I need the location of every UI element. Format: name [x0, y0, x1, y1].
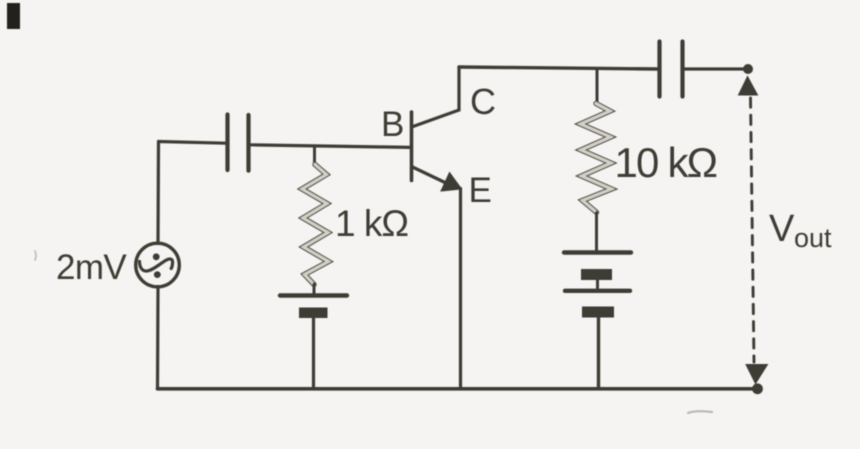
wire: battery to bottom rail (10 kΩ branch): [597, 317, 600, 389]
svg-text:1 kΩ: 1 kΩ: [335, 203, 408, 244]
wire: input capacitor to base: [249, 145, 412, 148]
wire: connector between battery cells: [596, 279, 599, 291]
Vout dashed line: [751, 98, 755, 362]
transistor emitter lead: [413, 167, 447, 183]
scan speck left margin: [35, 251, 36, 260]
Vout lower arrowhead (pointing down): [746, 365, 768, 384]
wire: 10 kΩ resistor bottom stem: [595, 213, 598, 252]
wire: bottom rail: [158, 387, 758, 391]
wire: battery to bottom rail (1 kΩ branch): [312, 318, 315, 389]
wire: 10 kΩ resistor top stem: [596, 69, 599, 104]
svg-text:2mV: 2mV: [56, 248, 127, 287]
transistor collector lead: [413, 68, 459, 127]
resistor 10 kΩ zigzag (light core): [581, 104, 612, 213]
output coupling capacitor left plate: [657, 42, 661, 97]
input coupling capacitor right plate: [246, 115, 250, 171]
wire: output capacitor to output node: [683, 67, 749, 70]
AC source upper dot: [153, 253, 160, 260]
wire: top-left horizontal to input capacitor: [159, 142, 227, 144]
input coupling capacitor left plate: [225, 115, 229, 171]
battery (1 kΩ branch) long plate: [280, 293, 347, 297]
transistor bar: [410, 112, 414, 181]
svg-text:B: B: [381, 105, 404, 144]
output coupling capacitor right plate: [680, 42, 684, 97]
AC source lower dot: [154, 271, 161, 278]
svg-text:V: V: [769, 208, 795, 250]
wire: 1 kΩ resistor bottom stem: [313, 284, 316, 294]
resistor 10 kΩ zigzag (dark edge): [581, 104, 612, 213]
node: output (top right): [743, 64, 753, 74]
node: bottom right: [752, 383, 763, 394]
svg-text:C: C: [470, 81, 496, 122]
battery (10 kΩ branch) second short thick plate: [582, 307, 614, 318]
resistor 1 kΩ zigzag (light core): [302, 165, 329, 285]
battery (10 kΩ branch) second long plate: [565, 289, 630, 293]
resistor 1 kΩ zigzag (dark edge): [302, 165, 329, 285]
wire: left vertical (source top): [156, 142, 160, 244]
battery (10 kΩ branch) first short thick plate: [581, 269, 612, 280]
AC source sine squiggle: [140, 259, 173, 271]
svg-text:E: E: [469, 171, 492, 210]
wire: emitter vertical down to bottom rail: [459, 189, 462, 389]
scan smudge below bottom rail: [688, 411, 712, 413]
transistor emitter arrowhead: [441, 173, 462, 192]
Vout upper arrowhead (pointing up): [739, 77, 758, 96]
wire: 1 kΩ resistor top stem: [313, 147, 316, 165]
wire: left vertical (source bottom): [156, 287, 160, 389]
scan artifact top-left corner: [7, 3, 20, 29]
battery (1 kΩ branch) short thick plate: [299, 308, 328, 319]
wire: top rail collector to output capacitor: [459, 67, 659, 69]
AC source 2mV circle: [136, 243, 180, 287]
svg-text:10 kΩ: 10 kΩ: [615, 139, 717, 186]
battery (10 kΩ branch) first long plate: [564, 250, 631, 254]
svg-text:out: out: [794, 223, 832, 253]
